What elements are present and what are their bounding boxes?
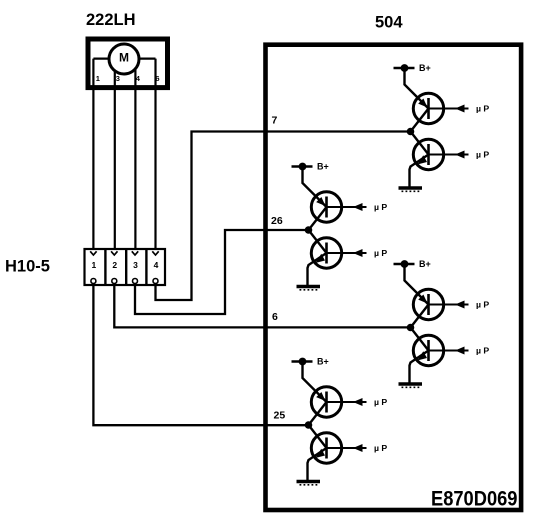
connector H10-5 cell divider bbox=[104, 248, 106, 286]
wire: Q1 collector to node bbox=[411, 109, 429, 132]
transistor Q4 (lower, NPN) bbox=[311, 238, 341, 268]
svg-text:6: 6 bbox=[272, 311, 278, 323]
svg-text:µ P: µ P bbox=[374, 202, 387, 212]
connector H10-5 bottom terminal pin 2 (circle) bbox=[112, 279, 117, 284]
motor M1 (circle with M) bbox=[109, 44, 139, 74]
svg-text:E870D069: E870D069 bbox=[431, 487, 518, 511]
connector H10-5 bottom terminal pin 4 (circle) bbox=[153, 279, 158, 284]
connector H10-5 bottom terminal pin 3 (circle) bbox=[133, 279, 138, 284]
wire: motor pin 4 down to connector H10-5 bbox=[134, 59, 136, 249]
svg-text:6: 6 bbox=[155, 74, 159, 83]
wire: Q8 base lead with arrow from microprocessor bbox=[327, 444, 367, 452]
wire: H10-5 pin 2 to control unit pin 6 bbox=[114, 283, 410, 327]
wire: Q1 base lead with arrow from microprocessor bbox=[429, 105, 469, 113]
svg-text:B+: B+ bbox=[419, 63, 431, 73]
wire: B+ to Q1 emitter bbox=[405, 68, 429, 109]
wire: Q6 emitter to ground bbox=[410, 351, 429, 383]
B+ supply symbol (group 25) bbox=[292, 358, 313, 366]
ground symbol (group 25) bbox=[297, 482, 321, 485]
control unit 504 enclosure box bbox=[266, 45, 522, 510]
svg-text:3: 3 bbox=[133, 260, 138, 270]
motor unit 222LH enclosure box bbox=[88, 39, 168, 88]
wire: H10-5 pin 3 to control unit pin 26 bbox=[135, 230, 309, 314]
wire: Q4 emitter to ground bbox=[308, 253, 327, 285]
svg-text:µ P: µ P bbox=[476, 150, 489, 160]
wire: H10-5 pin 1 to control unit pin 25 bbox=[93, 283, 308, 425]
ground symbol (group 26) bbox=[297, 287, 321, 290]
svg-text:26: 26 bbox=[271, 215, 283, 227]
wire: B+ to Q5 emitter bbox=[405, 264, 429, 305]
wire: node to Q4 collector bbox=[309, 230, 327, 253]
connector H10-5 top terminal pin 1 (chevron) bbox=[90, 251, 96, 255]
wire: Q2 emitter to ground bbox=[410, 155, 429, 187]
transistor Q3 (upper, PNP) bbox=[311, 192, 341, 222]
junction node pin 25 output bbox=[305, 421, 313, 429]
transistor Q5 (upper, PNP) bbox=[413, 289, 443, 319]
B+ supply symbol (group 7) bbox=[394, 64, 415, 72]
svg-text:B+: B+ bbox=[419, 259, 431, 269]
svg-text:1: 1 bbox=[92, 260, 97, 270]
transistor Q8 (lower, NPN) bbox=[311, 433, 341, 463]
wire: Q7 collector to node bbox=[309, 402, 327, 425]
connector H10-5 top terminal pin 2 (chevron) bbox=[111, 251, 117, 255]
wire: node to Q6 collector bbox=[411, 328, 429, 351]
junction node pin 6 output bbox=[407, 324, 415, 332]
svg-text:B+: B+ bbox=[317, 162, 329, 172]
svg-text:2: 2 bbox=[112, 260, 117, 270]
wire: Q2 base lead with arrow from microprocessor bbox=[429, 151, 469, 159]
svg-text:504: 504 bbox=[375, 14, 403, 32]
wire: Q6 base lead with arrow from microprocessor bbox=[429, 347, 469, 355]
svg-text:25: 25 bbox=[274, 409, 286, 421]
connector H10-5 top terminal pin 4 (chevron) bbox=[152, 251, 158, 255]
connector H10-5 cell divider bbox=[125, 248, 127, 286]
svg-text:H10-5: H10-5 bbox=[5, 258, 50, 276]
connector H10-5 top terminal pin 3 (chevron) bbox=[132, 251, 138, 255]
svg-text:µ P: µ P bbox=[476, 300, 489, 310]
transistor Q2 (lower, NPN) bbox=[413, 139, 443, 169]
ground symbol (group 7) bbox=[399, 188, 423, 191]
wire: B+ to Q7 emitter bbox=[303, 362, 327, 403]
connector H10-5 body bbox=[85, 249, 166, 285]
svg-text:M: M bbox=[119, 51, 129, 65]
transistor Q1 (upper, PNP) bbox=[413, 93, 443, 123]
wire: Q3 base lead with arrow from microprocessor bbox=[327, 203, 367, 211]
ground symbol (group 6) bbox=[399, 384, 423, 387]
wire: Q5 collector to node bbox=[411, 305, 429, 328]
wire: node to Q2 collector bbox=[411, 132, 429, 155]
svg-text:µ P: µ P bbox=[374, 248, 387, 258]
svg-text:3: 3 bbox=[116, 74, 120, 83]
svg-text:µ P: µ P bbox=[476, 104, 489, 114]
junction node pin 7 output bbox=[407, 128, 415, 136]
wire: motor pin 3 down to connector H10-5 bbox=[114, 59, 116, 249]
wire: Q8 emitter to ground bbox=[308, 448, 327, 480]
wire: node to Q8 collector bbox=[309, 425, 327, 448]
wire: Q5 base lead with arrow from microprocessor bbox=[429, 301, 469, 309]
svg-text:µ P: µ P bbox=[374, 397, 387, 407]
svg-text:µ P: µ P bbox=[374, 443, 387, 453]
connector H10-5 bottom terminal pin 1 (circle) bbox=[91, 279, 96, 284]
svg-text:7: 7 bbox=[272, 114, 278, 126]
junction node pin 26 output bbox=[305, 226, 313, 234]
wire: Q4 base lead with arrow from microprocessor bbox=[327, 249, 367, 257]
B+ supply symbol (group 6) bbox=[394, 260, 415, 268]
transistor Q7 (upper, PNP) bbox=[311, 387, 341, 417]
connector H10-5 cell divider bbox=[145, 248, 147, 286]
transistor Q6 (lower, NPN) bbox=[413, 335, 443, 365]
svg-text:B+: B+ bbox=[317, 357, 329, 367]
wire: B+ to Q3 emitter bbox=[303, 167, 327, 208]
wire: Q7 base lead with arrow from microprocessor bbox=[327, 398, 367, 406]
wire: Q3 collector to node bbox=[309, 207, 327, 230]
svg-text:222LH: 222LH bbox=[86, 11, 136, 29]
svg-text:4: 4 bbox=[154, 260, 159, 270]
wire: motor pin 6 down to connector H10-5 bbox=[154, 59, 156, 249]
wire: motor internal bus (pin1 to pin6 across motor terminals) bbox=[93, 57, 155, 59]
svg-text:1: 1 bbox=[96, 74, 100, 83]
wire: motor pin 1 down to connector H10-5 bbox=[92, 59, 94, 249]
B+ supply symbol (group 26) bbox=[292, 163, 313, 171]
svg-text:µ P: µ P bbox=[476, 346, 489, 356]
wire: H10-5 pin 4 to control unit pin 7 bbox=[156, 132, 411, 301]
